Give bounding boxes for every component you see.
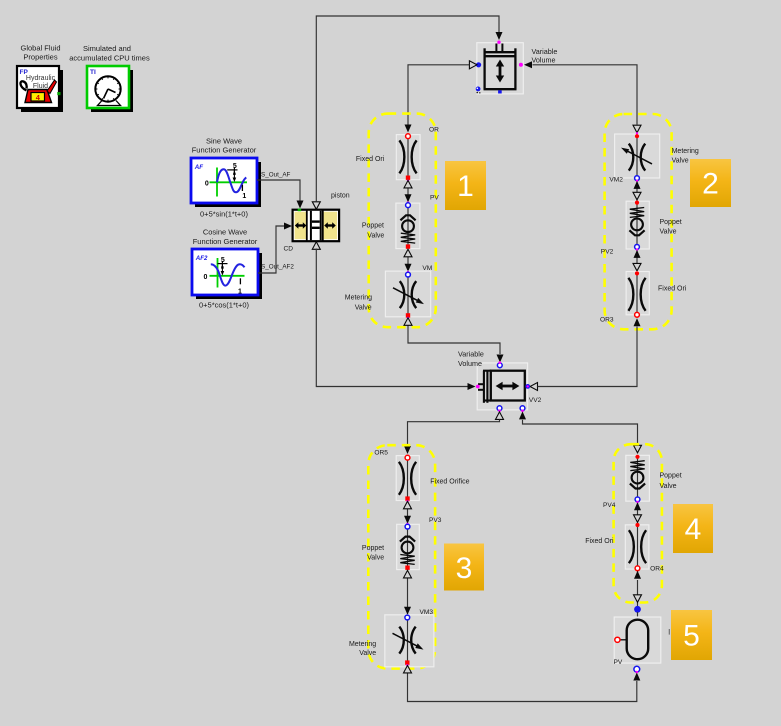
sine wave generator AF — [191, 158, 261, 207]
port OR5 top — [405, 455, 410, 460]
svg-text:Valve: Valve — [355, 304, 372, 311]
port VV left — [476, 62, 481, 67]
poppet valve PV4 — [626, 455, 650, 501]
cosine wave generator AF2 — [192, 249, 262, 299]
svg-text:OR: OR — [429, 127, 439, 134]
group 3 dashed frame — [368, 445, 435, 668]
group 2 dashed frame — [605, 114, 672, 329]
wire VV right to group2 top — [524, 61, 641, 132]
port OR5 bottom — [405, 496, 409, 500]
fixed orifice OR3 — [626, 272, 649, 315]
arrows between OR5 and PV3 — [404, 501, 412, 523]
wire VV2 right to group2 bottom — [530, 318, 641, 390]
label cosine wave generator — [193, 228, 258, 247]
svg-text:OR3: OR3 — [600, 317, 614, 324]
number 1 — [445, 161, 486, 210]
svg-text:Fixed Ori: Fixed Ori — [356, 156, 385, 163]
label metering valve (group1) — [345, 294, 372, 311]
metering valve VM2 — [615, 134, 660, 178]
label simulated cpu times — [69, 44, 150, 63]
label poppet valve (group2) — [660, 219, 682, 235]
svg-text:Valve: Valve — [367, 233, 384, 240]
label poppet valve (group4) — [660, 472, 682, 489]
label sine wave generator — [192, 136, 257, 154]
label variable volume (VV2) — [458, 350, 484, 368]
svg-text:Volume: Volume — [532, 56, 556, 65]
svg-text:PV: PV — [614, 659, 623, 666]
port PV2 bottom — [635, 245, 640, 250]
svg-text:Function Generator: Function Generator — [193, 237, 258, 246]
arrow group3 exit — [404, 665, 412, 673]
label global fluid properties — [20, 43, 60, 61]
arrows between PV4 and OR4 — [634, 502, 642, 522]
svg-text:1: 1 — [238, 289, 242, 296]
svg-text:Valve: Valve — [660, 228, 677, 235]
svg-text:PV4: PV4 — [603, 502, 616, 509]
svg-text:Metering: Metering — [672, 148, 699, 155]
tick mark left of number 5 — [669, 629, 670, 635]
metering valve VM3 — [385, 615, 434, 667]
svg-text:Poppet: Poppet — [362, 545, 384, 552]
poppet valve PV (group1) — [396, 203, 420, 249]
wire junction to accumulator — [637, 612, 639, 620]
svg-text:0: 0 — [204, 274, 208, 281]
global fluid properties block FP — [17, 66, 63, 112]
port OR top — [406, 134, 411, 139]
poppet valve PV2 — [626, 201, 649, 249]
port PV3 top — [406, 523, 408, 525]
group 4 dashed frame — [614, 444, 662, 602]
port VM top — [407, 271, 409, 273]
port VV2 bottom left — [497, 406, 502, 411]
metering valve VM (group1) — [385, 271, 430, 317]
arrows between PV2 and OR3 — [633, 250, 641, 271]
port piston bottom (hollow triangle) — [312, 242, 320, 250]
svg-text:TI: TI — [90, 69, 96, 76]
svg-text:Variable: Variable — [458, 350, 484, 359]
wire VV left to group1 top — [405, 61, 477, 133]
label metering valve (group3) — [349, 641, 376, 657]
port accumulator left — [615, 637, 620, 642]
svg-text:Fixed Ori: Fixed Ori — [658, 285, 687, 292]
arrow into VV2 top — [497, 355, 504, 363]
variable volume VV — [477, 43, 524, 94]
svg-text:Fixed Orifice: Fixed Orifice — [430, 478, 469, 485]
svg-text:AF2: AF2 — [195, 255, 208, 262]
svg-text:piston: piston — [331, 193, 350, 200]
svg-text:1: 1 — [242, 193, 246, 200]
port VV2 right — [525, 384, 530, 389]
arrows between OR and PV — [404, 180, 412, 202]
port VV top — [497, 41, 500, 44]
wire group1 column — [408, 136, 500, 354]
svg-text:PV3: PV3 — [429, 517, 442, 524]
arrows between VM2 and PV2 — [633, 181, 641, 200]
svg-text:0+5*sin(1*t+0): 0+5*sin(1*t+0) — [200, 209, 248, 218]
arrow into accumulator bottom — [633, 673, 640, 681]
svg-text:Volume: Volume — [458, 359, 482, 368]
number 5 — [671, 610, 712, 660]
arrows between PV and VM — [404, 249, 412, 271]
svg-text:Fixed Ori: Fixed Ori — [585, 538, 614, 545]
svg-text:PV2: PV2 — [601, 249, 614, 256]
svg-text:Valve: Valve — [672, 157, 689, 164]
label metering valve (group2) — [672, 148, 699, 164]
svg-text:OR4: OR4 — [650, 566, 664, 573]
svg-text:CD: CD — [284, 246, 294, 253]
junction node (blue) — [634, 606, 641, 613]
port piston top (hollow triangle) — [312, 202, 320, 210]
svg-text:VV2: VV2 — [529, 397, 542, 404]
number 3 — [444, 544, 484, 591]
port VM2 top — [636, 132, 638, 134]
svg-text:Poppet: Poppet — [660, 219, 682, 226]
arrows between PV3 and VM3 — [404, 570, 412, 614]
port PV3 bottom — [405, 566, 409, 570]
accumulator PV (group5) — [614, 617, 661, 663]
number 2 — [690, 159, 731, 207]
port VV2 top — [497, 363, 502, 368]
port VV right — [519, 63, 523, 67]
port OR4 bottom — [635, 566, 640, 571]
svg-text:0: 0 — [205, 180, 209, 187]
svg-text:Poppet: Poppet — [362, 222, 384, 229]
svg-text:OR5: OR5 — [374, 449, 388, 456]
svg-text:0+5*cos(1*t+0): 0+5*cos(1*t+0) — [199, 301, 250, 310]
cpu time clock block TI — [87, 66, 133, 112]
svg-text:3: 3 — [456, 552, 473, 585]
svg-text:AF: AF — [194, 164, 203, 171]
wire group4 column — [637, 457, 639, 607]
VV mini icon — [476, 87, 481, 92]
label variable volume (VV) — [532, 47, 558, 65]
svg-text:Valve: Valve — [367, 554, 384, 561]
port OR bottom — [406, 176, 410, 180]
svg-text:Poppet: Poppet — [660, 472, 682, 479]
svg-text:Function Generator: Function Generator — [192, 146, 257, 155]
svg-text:S_Out_AF2: S_Out_AF2 — [261, 263, 294, 270]
port VV bottom — [498, 90, 502, 93]
svg-text:VM: VM — [422, 265, 432, 272]
port VM3 bottom — [405, 660, 409, 664]
wire group2 column — [636, 136, 638, 315]
port VV2 left — [476, 385, 480, 389]
svg-text:4: 4 — [685, 513, 702, 546]
wire VV2 bottom-right to group4 — [519, 411, 642, 452]
number 4 — [673, 504, 713, 553]
port VM bottom — [406, 313, 410, 317]
port VM2 bottom — [635, 176, 640, 181]
port VM3 top — [405, 615, 410, 620]
wire sine output S_Out_AF — [257, 180, 304, 209]
arrow group1 exit — [404, 318, 412, 326]
variable volume VV2 — [477, 363, 527, 410]
svg-text:Metering: Metering — [345, 294, 372, 301]
wire group3 column and bottom rail — [408, 458, 637, 702]
svg-text:1: 1 — [457, 170, 474, 203]
svg-text:accumulated CPU times: accumulated CPU times — [69, 53, 150, 62]
poppet valve PV3 — [397, 524, 420, 569]
svg-text:Metering: Metering — [349, 641, 376, 648]
svg-text:Properties: Properties — [23, 52, 57, 61]
port OR3 top — [635, 271, 639, 275]
piston block CD — [293, 209, 340, 242]
arrow group4 exit down (hollow) — [634, 595, 642, 603]
port PV bottom — [406, 244, 410, 248]
fixed orifice OR (group1) — [396, 135, 420, 180]
svg-text:Sine Wave: Sine Wave — [206, 136, 242, 145]
svg-text:Simulated and: Simulated and — [83, 44, 131, 53]
svg-text:2: 2 — [702, 168, 719, 201]
svg-text:S_Out_AF: S_Out_AF — [261, 171, 291, 178]
port PV4 top — [635, 455, 639, 459]
label poppet valve (group3) — [362, 545, 384, 561]
port PV top — [407, 201, 409, 203]
svg-text:VM2: VM2 — [609, 177, 623, 184]
svg-text:VM3: VM3 — [420, 609, 434, 616]
wire piston bottom to VV2 left — [316, 249, 475, 391]
port OR3 bottom — [635, 312, 640, 317]
arrow group4 exit up — [634, 571, 641, 579]
fixed orifice OR5 — [396, 456, 419, 501]
svg-text:Cosine Wave: Cosine Wave — [203, 228, 247, 237]
svg-text:Valve: Valve — [660, 483, 677, 490]
wire VV2 bottom-left to group3 — [404, 412, 504, 454]
wire piston top to variable volume VV — [316, 16, 502, 202]
svg-text:Valve: Valve — [359, 650, 376, 657]
svg-text:PV: PV — [430, 195, 439, 202]
group 1 dashed frame — [369, 114, 436, 328]
port PV2 top — [635, 201, 639, 205]
port accumulator bottom — [634, 666, 640, 672]
port PV4 bottom — [635, 497, 640, 502]
label poppet valve (group1) — [362, 222, 385, 239]
svg-text:Global Fluid: Global Fluid — [20, 43, 60, 52]
fixed orifice OR4 — [625, 525, 649, 569]
svg-text:5: 5 — [683, 620, 700, 653]
port VV2 bottom right — [520, 406, 525, 411]
port OR4 top — [635, 523, 639, 527]
wire cosine output S_Out_AF2 — [258, 223, 292, 274]
svg-text:Hydraulic: Hydraulic — [26, 75, 56, 82]
